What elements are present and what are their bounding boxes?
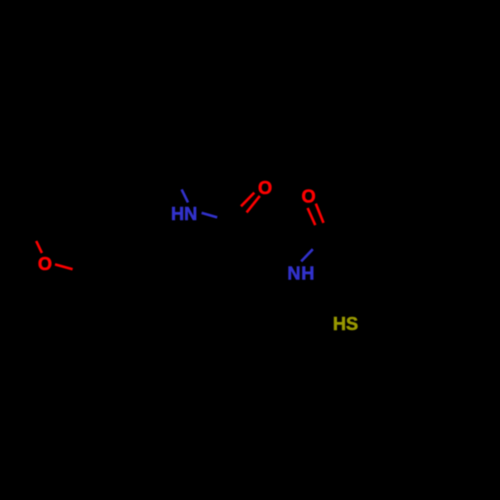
bond CH3-O (methoxy), red half near O	[36, 241, 42, 253]
bond N-C(=O) amide 1, blue half near N	[202, 213, 218, 218]
double bond C=O (amide 1 carbonyl), line 2	[247, 196, 260, 213]
double bond C=O (amide 2 carbonyl), red halves near O, line 1	[308, 208, 316, 225]
svg-text:O: O	[38, 254, 52, 274]
svg-text:O: O	[258, 178, 272, 198]
bond CH3-N (N-methyl), blue half near N	[182, 189, 188, 202]
svg-text:HS: HS	[333, 314, 358, 334]
svg-text:NH: NH	[287, 263, 315, 283]
double bond C=O (amide 2 carbonyl), line 2	[316, 204, 324, 223]
bond O-Caryl, red half near O	[55, 264, 73, 269]
bond N-C(=O) amide 2, blue half near N	[301, 249, 313, 261]
svg-text:HN: HN	[171, 204, 197, 224]
double bond C=O (amide 1 carbonyl), red halves near O, line 1	[241, 193, 254, 207]
svg-text:O: O	[302, 186, 316, 206]
